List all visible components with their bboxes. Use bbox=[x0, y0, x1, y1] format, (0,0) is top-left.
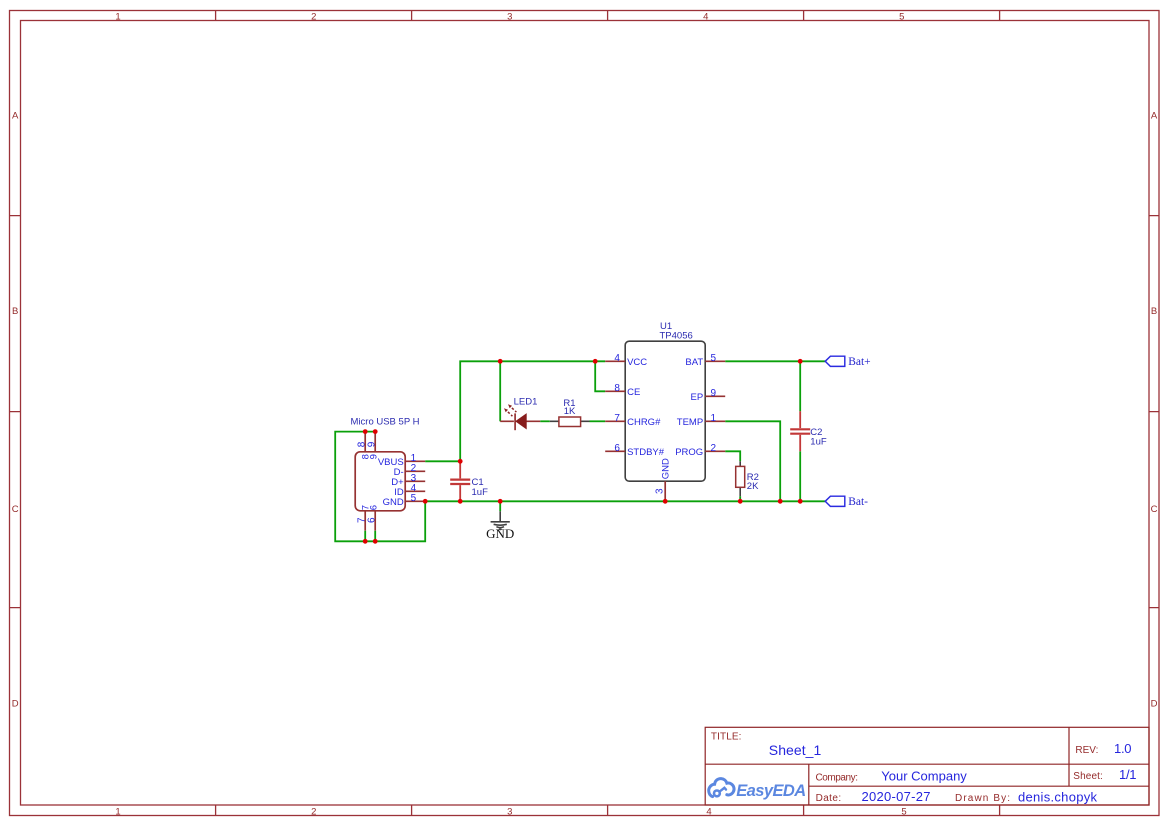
svg-text:4: 4 bbox=[703, 12, 708, 23]
wire GND net bottom bbox=[425, 500, 825, 502]
junction ground tap bbox=[498, 499, 503, 504]
junction pin8 shell top bbox=[363, 429, 368, 434]
svg-text:4: 4 bbox=[614, 353, 620, 364]
svg-text:A: A bbox=[12, 110, 19, 121]
wire BAT to Bat+ bbox=[725, 360, 825, 362]
svg-text:denis.chopyk: denis.chopyk bbox=[1018, 790, 1098, 805]
pin 4 VCC bbox=[605, 360, 625, 362]
svg-text:6: 6 bbox=[368, 505, 379, 510]
pin 6 STDBY# bbox=[605, 450, 625, 452]
junction LED branch bbox=[498, 359, 503, 364]
svg-text:2020-07-27: 2020-07-27 bbox=[862, 789, 931, 804]
svg-text:1: 1 bbox=[711, 413, 717, 424]
EasyEDA logo bbox=[709, 779, 734, 797]
pin 1 VBUS bbox=[405, 460, 425, 462]
svg-text:GND: GND bbox=[383, 497, 404, 508]
wire PROG to R2 bbox=[725, 451, 740, 501]
svg-text:2: 2 bbox=[311, 806, 316, 817]
svg-text:PROG: PROG bbox=[675, 447, 703, 458]
svg-text:1: 1 bbox=[115, 12, 120, 23]
junction C1 bottom bbox=[458, 499, 463, 504]
svg-text:GND: GND bbox=[486, 526, 514, 541]
wire usb shell loop bbox=[335, 432, 425, 542]
svg-text:9: 9 bbox=[366, 441, 377, 447]
junction IC GND pin3 bbox=[663, 499, 668, 504]
pin 3 GND bbox=[664, 481, 666, 501]
svg-text:Drawn By:: Drawn By: bbox=[955, 793, 1010, 804]
svg-text:Date:: Date: bbox=[816, 793, 842, 804]
wire LED branch bbox=[499, 361, 501, 421]
svg-text:1uF: 1uF bbox=[472, 487, 489, 498]
svg-text:TP4056: TP4056 bbox=[660, 331, 693, 342]
wire VBUS to node bbox=[425, 460, 460, 462]
svg-text:1/1: 1/1 bbox=[1119, 767, 1137, 782]
pin 8 shell bbox=[364, 432, 366, 452]
pin 2 D- bbox=[405, 470, 425, 472]
svg-text:C: C bbox=[1151, 504, 1158, 515]
svg-text:Company:: Company: bbox=[816, 772, 859, 783]
svg-text:D: D bbox=[12, 698, 19, 709]
wire C2 top bbox=[799, 361, 801, 411]
svg-text:STDBY#: STDBY# bbox=[627, 447, 665, 458]
svg-text:8: 8 bbox=[614, 383, 620, 394]
svg-text:Sheet_1: Sheet_1 bbox=[769, 742, 822, 758]
svg-text:Your Company: Your Company bbox=[881, 769, 967, 784]
pin 3 D+ bbox=[405, 480, 425, 482]
svg-text:7: 7 bbox=[614, 413, 620, 424]
svg-text:EP: EP bbox=[691, 392, 704, 403]
capacitor C2 bbox=[790, 411, 827, 451]
pin 9 shell bbox=[374, 432, 376, 452]
svg-text:9: 9 bbox=[368, 454, 379, 459]
title block bbox=[705, 727, 1149, 805]
resistor R1 bbox=[550, 398, 590, 426]
svg-text:9: 9 bbox=[711, 388, 717, 399]
svg-text:4: 4 bbox=[706, 806, 711, 817]
ground GND bbox=[486, 511, 514, 541]
svg-text:5: 5 bbox=[411, 493, 417, 504]
svg-text:A: A bbox=[1151, 110, 1158, 121]
svg-text:Bat+: Bat+ bbox=[848, 356, 870, 368]
svg-text:TITLE:: TITLE: bbox=[711, 731, 742, 742]
svg-text:1uF: 1uF bbox=[810, 436, 827, 447]
svg-text:5: 5 bbox=[901, 806, 906, 817]
pin 2 PROG bbox=[705, 450, 725, 452]
junction usb GND pin5 bbox=[423, 499, 428, 504]
svg-text:LED1: LED1 bbox=[514, 396, 538, 407]
svg-text:3: 3 bbox=[507, 806, 512, 817]
pin 5 BAT bbox=[705, 360, 725, 362]
svg-text:CE: CE bbox=[627, 387, 640, 398]
svg-text:BAT: BAT bbox=[685, 357, 703, 368]
junction VBUS C1 top bbox=[458, 459, 463, 464]
svg-text:Micro USB 5P H: Micro USB 5P H bbox=[351, 417, 420, 428]
pin 7 CHRG# bbox=[605, 420, 625, 422]
junction C2 bottom bbox=[798, 499, 803, 504]
svg-text:6: 6 bbox=[614, 443, 620, 454]
port Bat- bbox=[825, 496, 868, 508]
port Bat+ bbox=[825, 356, 870, 368]
resistor R2 bbox=[736, 461, 759, 496]
svg-text:B: B bbox=[12, 306, 18, 317]
capacitor C1 bbox=[450, 461, 488, 501]
svg-text:C: C bbox=[12, 504, 19, 515]
svg-text:CHRG#: CHRG# bbox=[627, 417, 661, 428]
svg-text:GND: GND bbox=[661, 458, 672, 479]
wire VCC net top bbox=[460, 361, 605, 461]
svg-text:2K: 2K bbox=[747, 481, 759, 492]
svg-text:2: 2 bbox=[711, 443, 717, 454]
pin 1 TEMP bbox=[705, 420, 725, 422]
pin 7 shell bbox=[364, 511, 366, 531]
wire ground stub bbox=[499, 501, 501, 511]
pin 9 EP bbox=[705, 395, 725, 397]
LED LED1 bbox=[500, 396, 540, 430]
svg-text:5: 5 bbox=[711, 353, 717, 364]
junction CE branch bbox=[593, 359, 598, 364]
IC U1 TP4056 bbox=[605, 321, 725, 501]
junction pin9 shell top bbox=[373, 429, 378, 434]
svg-text:1.0: 1.0 bbox=[1114, 741, 1132, 756]
wire C2 bottom bbox=[799, 451, 801, 501]
wire TEMP branch bbox=[725, 421, 780, 501]
svg-text:3: 3 bbox=[507, 12, 512, 23]
wire CE branch bbox=[595, 361, 605, 391]
svg-text:EasyEDA: EasyEDA bbox=[736, 782, 806, 800]
svg-text:6: 6 bbox=[366, 517, 377, 523]
svg-text:B: B bbox=[1151, 306, 1157, 317]
svg-text:D: D bbox=[1151, 698, 1158, 709]
svg-text:TEMP: TEMP bbox=[677, 417, 703, 428]
svg-text:2: 2 bbox=[311, 12, 316, 23]
wire LED to R1 bbox=[540, 420, 550, 422]
junction C2 top bbox=[798, 359, 803, 364]
svg-text:REV:: REV: bbox=[1075, 745, 1098, 756]
pin 6 shell bbox=[374, 511, 376, 531]
wire R1 to CHRG# bbox=[590, 420, 606, 422]
svg-text:1: 1 bbox=[115, 806, 120, 817]
connector USB1 Micro USB 5P H bbox=[351, 417, 426, 531]
junction pin7 shell bottom bbox=[363, 539, 368, 544]
pin 8 CE bbox=[605, 390, 625, 392]
junction pin6 shell bottom bbox=[373, 539, 378, 544]
svg-text:Bat-: Bat- bbox=[848, 496, 868, 508]
svg-text:5: 5 bbox=[899, 12, 904, 23]
pin 4 ID bbox=[405, 490, 425, 492]
svg-text:VCC: VCC bbox=[627, 357, 647, 368]
svg-text:1K: 1K bbox=[564, 406, 576, 417]
junction R2 bottom bbox=[738, 499, 743, 504]
pin 5 GND bbox=[405, 500, 425, 502]
junction TEMP bottom bbox=[778, 499, 783, 504]
svg-text:3: 3 bbox=[654, 488, 665, 494]
svg-text:Sheet:: Sheet: bbox=[1073, 771, 1103, 782]
